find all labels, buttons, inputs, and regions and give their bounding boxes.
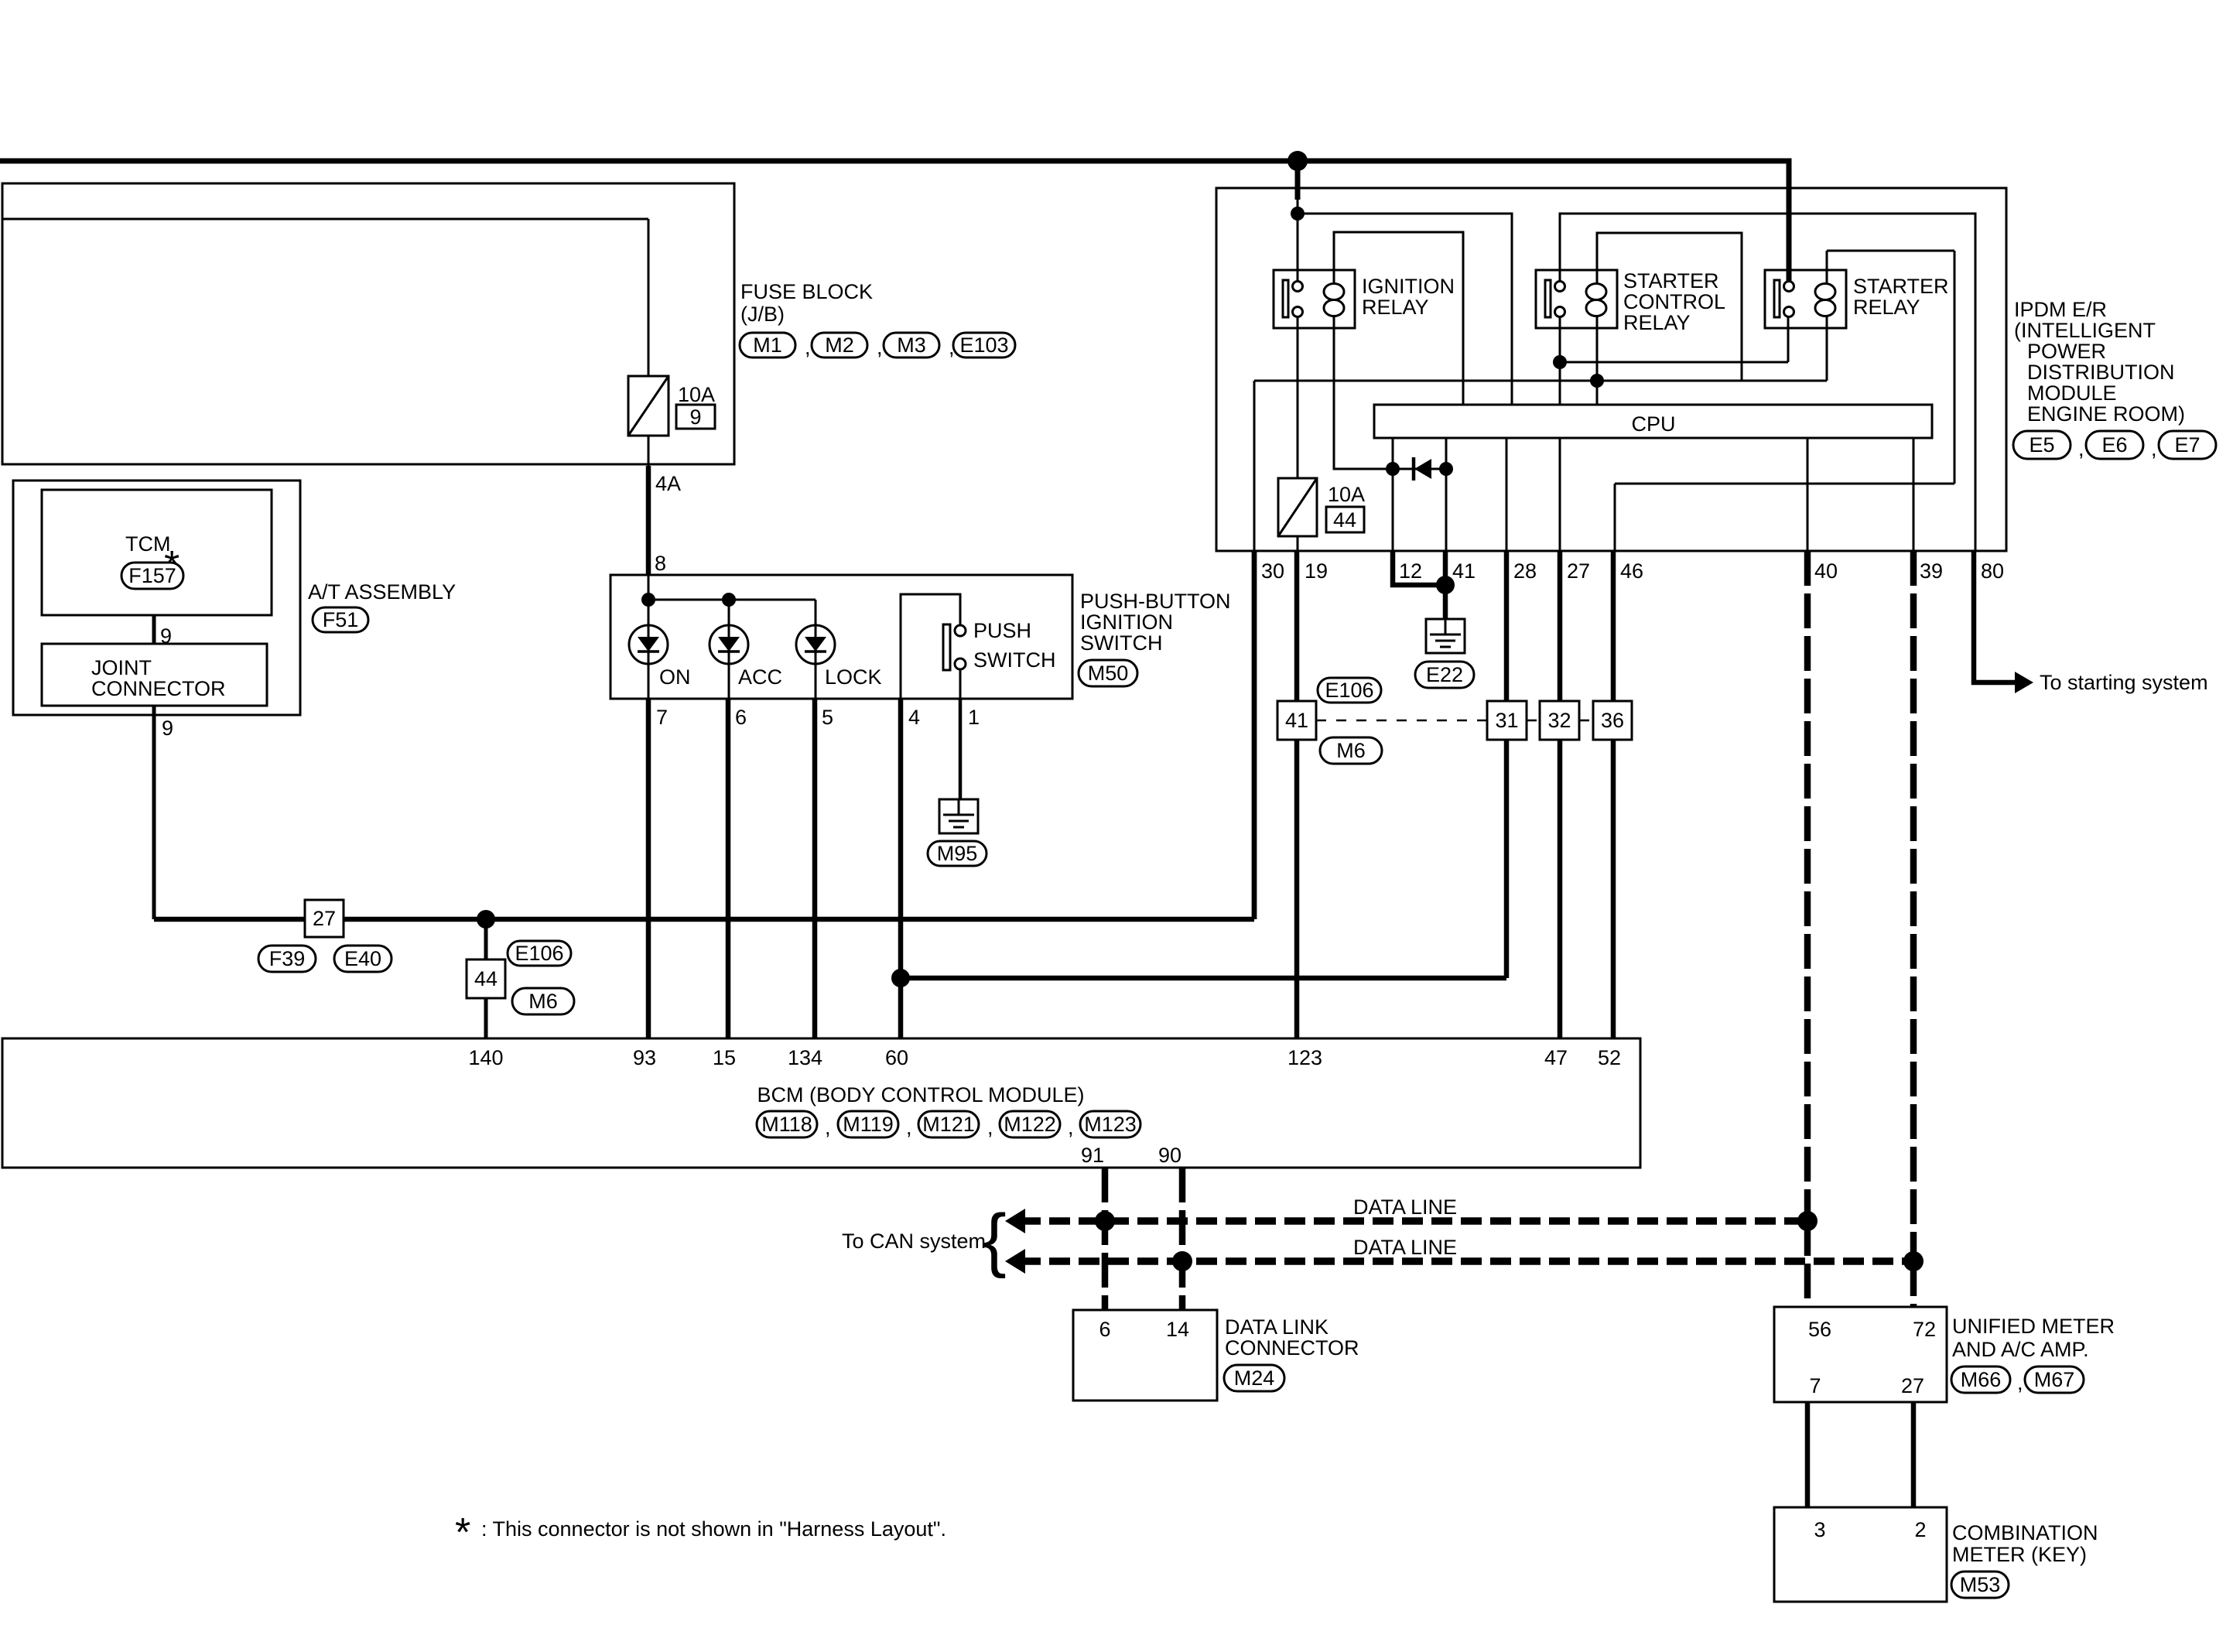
svg-text:M66: M66 — [1961, 1368, 2002, 1391]
wire dashed connector link 32-36 — [1579, 720, 1593, 722]
connector M121 — [918, 1111, 979, 1137]
svg-text:46: 46 — [1620, 559, 1643, 583]
junction node at ACC LED — [722, 593, 736, 607]
connector M24 — [1224, 1365, 1284, 1391]
svg-text:M122: M122 — [1004, 1113, 1056, 1136]
svg-text:19: 19 — [1305, 559, 1328, 583]
svg-text:M50: M50 — [1088, 662, 1129, 685]
wire battery feed to CPU — [1298, 214, 1512, 405]
svg-text:90: 90 — [1158, 1144, 1181, 1167]
junction node data line 1 / pin 91 — [1095, 1211, 1115, 1231]
connector E7 — [2159, 431, 2216, 459]
svg-text:,: , — [1068, 1116, 1074, 1139]
svg-text:AND A/C AMP.: AND A/C AMP. — [1952, 1338, 2089, 1361]
wire A/T assembly to IPDM pin 30 (horizontal run) — [154, 917, 1254, 922]
svg-text:93: 93 — [633, 1046, 656, 1069]
svg-text:M24: M24 — [1234, 1366, 1275, 1390]
junction node starter control contact — [1553, 355, 1567, 369]
svg-text:(J/B): (J/B) — [740, 303, 785, 326]
wire BCM pin 91 data line (dashed) — [1102, 1168, 1109, 1310]
IPDM E/R box — [1216, 188, 2006, 551]
wire pin 80 to starting system — [1974, 551, 2015, 682]
wire pin 1 to ground M95 — [959, 699, 963, 799]
unified meter and A/C amp box — [1774, 1307, 1947, 1402]
connector M1 — [740, 333, 795, 357]
svg-text:27: 27 — [1567, 559, 1590, 583]
svg-text:POWER: POWER — [2027, 340, 2106, 363]
wire starter control relay coil to CPU — [1596, 316, 1599, 405]
svg-text:6: 6 — [735, 706, 747, 729]
wire pin 12 elbow to pin 41 node — [1393, 551, 1445, 585]
svg-text:140: 140 — [468, 1046, 503, 1069]
svg-text:7: 7 — [656, 706, 668, 729]
svg-text:47: 47 — [1544, 1046, 1568, 1069]
push switch lower contact — [955, 658, 966, 669]
data link connector box — [1073, 1310, 1217, 1401]
wire pin 4 to BCM pin 60 — [898, 699, 904, 1038]
wire to fuse 9 — [648, 219, 650, 376]
svg-text:M2: M2 — [825, 333, 854, 357]
svg-text:9: 9 — [162, 717, 173, 740]
svg-text:PUSH: PUSH — [973, 619, 1031, 642]
arrow to CAN system (line 1) — [1005, 1209, 1025, 1233]
svg-text:F51: F51 — [323, 608, 359, 631]
LED LOCK indicator — [796, 625, 835, 664]
svg-text:44: 44 — [474, 967, 498, 990]
wire ignition relay coil bottom to diode node — [1334, 316, 1393, 469]
wire internal bus to indicator LEDs — [648, 599, 816, 601]
wire CPU to pin 39 — [1913, 438, 1915, 551]
wire pin 41 to ground E22 — [1443, 551, 1448, 619]
junction node diode anode side — [1386, 462, 1400, 476]
connector E106 (right) — [1318, 678, 1381, 703]
svg-text:72: 72 — [1913, 1318, 1936, 1341]
svg-text:M3: M3 — [897, 333, 926, 357]
LED ACC indicator — [710, 625, 748, 664]
svg-text:,: , — [906, 1116, 912, 1139]
svg-text:To CAN system: To CAN system — [842, 1230, 986, 1253]
svg-text:COMBINATION: COMBINATION — [1952, 1521, 2098, 1544]
push-button ignition switch box — [610, 575, 1072, 699]
junction node data line 1 / pin 40 — [1797, 1211, 1818, 1231]
junction node battery feed inside IPDM — [1291, 207, 1305, 221]
svg-text:44: 44 — [1333, 508, 1356, 532]
TCM box — [42, 490, 272, 615]
wire starter relay coil bottom to pin 30 run — [1826, 316, 1828, 381]
svg-text:BCM (BODY CONTROL MODULE): BCM (BODY CONTROL MODULE) — [757, 1083, 1084, 1106]
CPU box — [1374, 405, 1932, 438]
svg-text:2: 2 — [1914, 1518, 1926, 1541]
ground E22 symbol — [1426, 619, 1465, 653]
svg-text:ACC: ACC — [738, 665, 782, 689]
ignition relay — [1274, 270, 1355, 328]
connector F39 — [258, 946, 316, 972]
wire bus inside fuse block — [2, 218, 648, 221]
fuse block (J/B) box — [2, 183, 734, 464]
svg-text:STARTER: STARTER — [1853, 275, 1949, 298]
svg-text:M118: M118 — [761, 1113, 812, 1136]
svg-text:METER (KEY): METER (KEY) — [1952, 1543, 2087, 1566]
wire pin 5 to BCM pin 134 — [812, 699, 818, 1038]
connector E5 — [2013, 431, 2071, 459]
wire starter control relay contact to CPU — [1559, 316, 1561, 405]
svg-text:56: 56 — [1808, 1318, 1831, 1341]
svg-text:E106: E106 — [1325, 679, 1373, 702]
svg-text:: This connector is not shown: : This connector is not shown in "Harnes… — [481, 1517, 946, 1541]
wire ACC LED to pin 6 — [728, 664, 730, 699]
svg-text:14: 14 — [1166, 1318, 1189, 1341]
connector M50 — [1079, 660, 1137, 686]
fuse 10A #9 — [628, 376, 669, 436]
wire pin 39 data line (dashed) — [1910, 551, 1917, 1261]
wire data line to meter pin 72 (dashed) — [1910, 1261, 1917, 1307]
wire push switch to pin 1 — [959, 669, 962, 699]
wire junction to connector 44 — [484, 919, 488, 959]
svg-text:E40: E40 — [344, 947, 381, 970]
svg-text:,: , — [2151, 437, 2157, 460]
junction node on pin 4 wire — [891, 969, 910, 987]
connector E40 — [334, 946, 392, 972]
svg-text:,: , — [805, 336, 811, 359]
joint connector box — [42, 644, 267, 706]
svg-text:4A: 4A — [655, 472, 681, 495]
svg-text:6: 6 — [1099, 1318, 1110, 1341]
svg-text:9: 9 — [689, 405, 701, 429]
svg-text:SWITCH: SWITCH — [973, 648, 1055, 672]
connector M6 (left) — [512, 988, 574, 1014]
junction node diode cathode side — [1439, 462, 1453, 476]
svg-text:JOINT: JOINT — [91, 656, 152, 679]
wire starter control relay coil top loop — [1597, 233, 1742, 381]
svg-text:IGNITION: IGNITION — [1080, 611, 1173, 634]
wire bus stub down to IPDM ignition relay — [1295, 161, 1301, 200]
svg-text:DATA LINK: DATA LINK — [1225, 1315, 1329, 1339]
svg-text:IPDM E/R: IPDM E/R — [2014, 298, 2107, 321]
arrow to CAN system (line 2) — [1005, 1249, 1025, 1274]
svg-text:,: , — [987, 1116, 993, 1139]
wire starter control relay contact feed to pin 80 riser — [1560, 214, 1975, 551]
svg-text:DATA LINE: DATA LINE — [1353, 1195, 1457, 1219]
connector M119 — [838, 1111, 898, 1137]
wire pin 27 to BCM pin 47 — [1558, 551, 1563, 1038]
wire pin 30 to coil node run — [1254, 381, 1827, 551]
wire meter pin 7 to combination meter pin 3 — [1805, 1402, 1811, 1507]
svg-text:4: 4 — [908, 706, 920, 729]
wire CPU to pin 40 — [1807, 438, 1809, 551]
wire ignition relay coil top to CPU — [1334, 232, 1463, 405]
svg-text:LOCK: LOCK — [825, 665, 882, 689]
svg-text:32: 32 — [1547, 709, 1571, 732]
wire dashed connector link 41-31 — [1316, 720, 1487, 722]
arrow to starting system — [2015, 672, 2033, 693]
wire dashed connector link 31-32 — [1527, 720, 1540, 722]
push switch wiring to pin 4 — [901, 594, 960, 699]
svg-text:,: , — [877, 336, 883, 359]
junction node data line 2 / pin 90 — [1172, 1251, 1192, 1271]
svg-text:10A: 10A — [678, 383, 715, 406]
wire data line to meter pin 56 (dashed) — [1804, 1221, 1811, 1307]
svg-text:39: 39 — [1920, 559, 1943, 583]
svg-text:27: 27 — [1901, 1374, 1924, 1397]
connector F157 — [121, 563, 183, 589]
svg-text:FUSE BLOCK: FUSE BLOCK — [740, 280, 873, 303]
wire CPU to diode node (pin 12) — [1392, 438, 1394, 551]
fuse 10A #44 (IPDM) — [1278, 478, 1317, 536]
wire ON LED to pin 7 — [648, 664, 650, 699]
push switch upper contact — [955, 625, 966, 636]
connector box 31 — [1487, 701, 1527, 740]
connector box 27 — [305, 900, 344, 937]
wire BCM pin 90 data line (dashed) — [1179, 1168, 1186, 1310]
svg-text:IGNITION: IGNITION — [1362, 275, 1455, 298]
fuse number box 44 — [1326, 507, 1364, 532]
svg-text:E6: E6 — [2101, 433, 2127, 457]
wire fuse 44 to pin 19 — [1297, 536, 1299, 551]
wire meter pin 27 to combination meter pin 2 — [1911, 1402, 1917, 1507]
fuse number box 9 — [676, 405, 715, 429]
svg-text:,: , — [2078, 437, 2084, 460]
wire diode node to CPU and pin 41 — [1445, 438, 1448, 551]
svg-text:{: { — [983, 1200, 1007, 1279]
starter control relay — [1536, 270, 1617, 328]
wire joint connector pin 9 down — [152, 706, 156, 919]
svg-text:RELAY: RELAY — [1853, 296, 1920, 319]
svg-text:1: 1 — [968, 706, 980, 729]
svg-text:E103: E103 — [959, 333, 1008, 357]
svg-text:30: 30 — [1261, 559, 1284, 583]
connector F51 — [313, 607, 368, 632]
svg-text:134: 134 — [788, 1046, 822, 1069]
svg-text:M119: M119 — [843, 1113, 894, 1136]
connector M66 — [1951, 1366, 2010, 1393]
wire LOCK LED to pin 5 — [815, 664, 817, 699]
diode (IPDM internal) — [1393, 468, 1446, 470]
svg-text:7: 7 — [1809, 1374, 1821, 1397]
wire pin 28 to branch corner — [1504, 551, 1510, 978]
wire pin 40 data line (dashed) — [1804, 551, 1811, 1221]
connector M2 — [812, 333, 867, 357]
svg-text:F39: F39 — [269, 947, 306, 970]
A/T assembly box — [13, 481, 300, 715]
junction node on bus at fuse-block/IPDM feed — [1287, 151, 1308, 171]
svg-text:M121: M121 — [922, 1113, 975, 1136]
connector M95 — [928, 841, 987, 866]
connector E103 — [953, 333, 1015, 357]
svg-text:36: 36 — [1601, 709, 1624, 732]
svg-text:41: 41 — [1285, 709, 1308, 732]
connector E6 — [2086, 431, 2143, 459]
wire connector 44 to BCM pin 140 — [484, 998, 488, 1038]
wire IPDM pin 28 branch to push-button pin 4 wire — [901, 976, 1506, 981]
connector M53 — [1951, 1572, 2009, 1598]
svg-text:To starting system: To starting system — [2040, 671, 2208, 694]
connector M6 (right) — [1320, 737, 1382, 764]
connector E106 (left) — [508, 941, 571, 966]
wire pin 6 to BCM pin 15 — [726, 699, 731, 1038]
svg-text:10A: 10A — [1328, 483, 1365, 506]
wire contact node to starter relay contact — [1560, 316, 1788, 362]
svg-text:RELAY: RELAY — [1623, 311, 1691, 334]
connector M122 — [1000, 1111, 1060, 1137]
svg-text:CPU: CPU — [1631, 412, 1675, 436]
junction node starter control coil — [1590, 374, 1604, 388]
connector box 32 — [1540, 701, 1579, 740]
svg-text:DISTRIBUTION: DISTRIBUTION — [2027, 361, 2175, 384]
connector M123 — [1080, 1111, 1140, 1137]
svg-text:RELAY: RELAY — [1362, 296, 1429, 319]
svg-text:52: 52 — [1598, 1046, 1621, 1069]
svg-text:41: 41 — [1452, 559, 1476, 583]
svg-text:80: 80 — [1981, 559, 2004, 583]
svg-text:ENGINE ROOM): ENGINE ROOM) — [2027, 402, 2185, 426]
svg-text:8: 8 — [655, 552, 666, 575]
wire pin 46 to BCM pin 52 — [1611, 551, 1616, 1038]
svg-text:E106: E106 — [515, 942, 563, 965]
connector box 41 — [1277, 701, 1316, 740]
svg-text:5: 5 — [822, 706, 833, 729]
svg-text:E7: E7 — [2174, 433, 2200, 457]
LED ON indicator — [629, 625, 668, 664]
wire TCM pin 9 to joint connector — [152, 615, 156, 644]
svg-text:CONNECTOR: CONNECTOR — [1225, 1336, 1359, 1360]
junction node at ON LED — [641, 593, 655, 607]
connector M67 — [2025, 1366, 2084, 1393]
wire pin 19 to BCM pin 123 — [1294, 551, 1300, 1038]
svg-text:UNIFIED METER: UNIFIED METER — [1952, 1315, 2115, 1338]
svg-text:60: 60 — [885, 1046, 908, 1069]
svg-text:12: 12 — [1399, 559, 1422, 583]
junction node data line 2 / pin 39 — [1903, 1251, 1924, 1271]
svg-text:,: , — [949, 336, 955, 359]
svg-text:CONTROL: CONTROL — [1623, 290, 1725, 313]
wire riser to IPDM pin 30 — [1252, 551, 1257, 919]
wire CAN data line 2 (dashed) — [1020, 1257, 1913, 1265]
wire CAN data line 1 (dashed) — [1020, 1217, 1807, 1225]
svg-text:40: 40 — [1814, 559, 1838, 583]
connector M118 — [757, 1111, 817, 1137]
svg-text:M6: M6 — [528, 990, 558, 1013]
junction node to connector 44 drop — [477, 910, 495, 929]
wire pin 8 into switch — [648, 575, 650, 600]
svg-text:STARTER: STARTER — [1623, 269, 1719, 292]
svg-text:*: * — [455, 1510, 470, 1555]
svg-text:,: , — [2017, 1371, 2023, 1394]
svg-text:ON: ON — [659, 665, 691, 689]
svg-text:CONNECTOR: CONNECTOR — [91, 677, 226, 700]
svg-text:F157: F157 — [128, 564, 176, 587]
svg-text:MODULE: MODULE — [2027, 381, 2117, 405]
svg-text:M67: M67 — [2034, 1368, 2075, 1391]
svg-text:M95: M95 — [937, 842, 978, 865]
combination meter box — [1774, 1507, 1947, 1602]
ground M95 symbol — [939, 799, 978, 833]
wire CPU to pin 28 — [1506, 438, 1508, 551]
svg-text:E22: E22 — [1426, 663, 1463, 686]
starter relay — [1765, 270, 1846, 328]
wire pin 7 to BCM pin 93 — [646, 699, 651, 1038]
push switch contact bar — [943, 624, 950, 670]
wire ignition relay contact to fuse 44 — [1297, 316, 1299, 478]
svg-text:(INTELLIGENT: (INTELLIGENT — [2014, 319, 2156, 342]
svg-text:28: 28 — [1513, 559, 1537, 583]
connector E22 — [1415, 662, 1474, 688]
connector box 44 — [467, 959, 505, 998]
svg-text:27: 27 — [313, 907, 336, 930]
wire pin 46 to starter relay coil — [1615, 251, 1954, 551]
wire pin 30 drop (bold) — [1252, 551, 1257, 919]
connector M3 — [884, 333, 939, 357]
svg-text:M53: M53 — [1960, 1573, 2001, 1596]
wire battery bus (thick) — [0, 161, 1789, 282]
svg-text:3: 3 — [1814, 1518, 1825, 1541]
wire fuse 9 to fuse block edge — [648, 436, 650, 466]
svg-text:A/T ASSEMBLY: A/T ASSEMBLY — [308, 580, 456, 604]
svg-text:15: 15 — [713, 1046, 736, 1069]
svg-text:,: , — [825, 1116, 831, 1139]
svg-text:123: 123 — [1287, 1046, 1322, 1069]
connector box 36 — [1593, 701, 1632, 740]
svg-text:DATA LINE: DATA LINE — [1353, 1236, 1457, 1259]
svg-text:M123: M123 — [1084, 1113, 1137, 1136]
junction node pins 12/41 — [1436, 576, 1455, 594]
svg-text:SWITCH: SWITCH — [1080, 631, 1162, 655]
svg-text:91: 91 — [1081, 1144, 1104, 1167]
svg-text:M6: M6 — [1336, 739, 1366, 762]
wire 4A fuse block to push-button switch pin 8 — [646, 466, 651, 575]
svg-text:31: 31 — [1495, 709, 1518, 732]
BCM box — [2, 1038, 1640, 1168]
svg-text:M1: M1 — [753, 333, 782, 357]
wire CPU to pin 27 — [1559, 438, 1561, 551]
svg-text:PUSH-BUTTON: PUSH-BUTTON — [1080, 590, 1231, 613]
svg-text:E5: E5 — [2029, 433, 2054, 457]
